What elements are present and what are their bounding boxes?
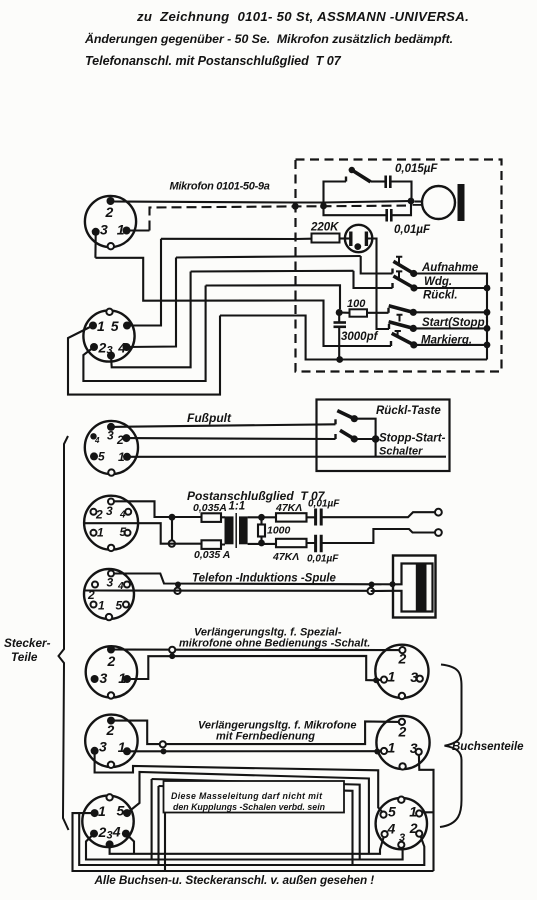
svg-text:Stecker-: Stecker- (4, 636, 51, 650)
svg-text:1: 1 (388, 740, 396, 756)
svg-text:2: 2 (398, 651, 407, 667)
svg-text:Telefonanschl. mit Postanschlu: Telefonanschl. mit Postanschlußglied T 0… (85, 54, 342, 68)
svg-text:Telefon -Induktions -Spule: Telefon -Induktions -Spule (192, 573, 337, 585)
svg-text:3: 3 (106, 504, 113, 518)
svg-text:1:1: 1:1 (229, 501, 246, 513)
svg-text:1: 1 (97, 318, 105, 334)
svg-text:1: 1 (118, 450, 125, 464)
svg-text:Mikrofon 0101-50-9a: Mikrofon 0101-50-9a (170, 181, 270, 193)
svg-text:Rückl.: Rückl. (423, 290, 458, 302)
svg-text:0,01µF: 0,01µF (394, 224, 431, 236)
svg-text:1: 1 (117, 222, 125, 238)
svg-text:2: 2 (98, 340, 107, 356)
svg-text:4: 4 (387, 821, 396, 837)
svg-text:3: 3 (410, 740, 418, 756)
svg-text:4: 4 (117, 581, 124, 592)
svg-text:mikrofone ohne Bedienungs -Sch: mikrofone ohne Bedienungs -Schalt. (179, 638, 370, 650)
svg-text:220K: 220K (310, 222, 339, 234)
svg-text:100: 100 (347, 298, 366, 310)
svg-text:3: 3 (410, 669, 418, 685)
svg-text:5: 5 (116, 599, 123, 613)
svg-text:2: 2 (106, 722, 115, 738)
svg-text:1: 1 (118, 739, 126, 755)
svg-text:4: 4 (112, 824, 121, 840)
svg-text:0,015µF: 0,015µF (395, 163, 438, 175)
svg-text:1: 1 (97, 526, 104, 540)
svg-text:Rückl-Taste: Rückl-Taste (376, 405, 441, 417)
svg-text:Fußpult: Fußpult (187, 411, 232, 425)
svg-text:2: 2 (409, 820, 418, 836)
svg-text:2: 2 (116, 433, 124, 447)
svg-text:3: 3 (99, 739, 107, 755)
svg-text:5: 5 (98, 450, 105, 464)
svg-text:1: 1 (118, 670, 126, 686)
svg-text:3: 3 (100, 670, 108, 686)
svg-text:2: 2 (107, 653, 116, 669)
svg-text:0,01µF: 0,01µF (308, 499, 340, 510)
svg-text:2: 2 (98, 824, 107, 840)
svg-text:Buchsenteile: Buchsenteile (452, 741, 524, 753)
svg-text:4: 4 (94, 436, 100, 445)
svg-text:47KΛ: 47KΛ (272, 551, 299, 563)
svg-text:2: 2 (105, 204, 114, 220)
svg-text:0,035 A: 0,035 A (194, 549, 230, 561)
svg-text:0,035A: 0,035A (193, 502, 227, 514)
svg-text:1: 1 (409, 804, 417, 820)
svg-text:Teile: Teile (11, 650, 38, 664)
svg-text:mit Fernbedienung: mit Fernbedienung (216, 731, 315, 743)
svg-text:3: 3 (107, 345, 113, 357)
svg-text:5: 5 (388, 804, 396, 820)
svg-text:47KΛ: 47KΛ (275, 502, 302, 514)
svg-text:Diese Masseleitung darf nicht: Diese Masseleitung darf nicht mit (171, 791, 323, 801)
svg-text:2: 2 (398, 724, 407, 740)
svg-text:3: 3 (107, 576, 114, 590)
svg-text:3: 3 (100, 222, 108, 238)
svg-text:1000: 1000 (267, 525, 291, 537)
svg-text:0,01µF: 0,01µF (307, 554, 339, 565)
svg-text:Schalter: Schalter (379, 446, 423, 458)
svg-text:4: 4 (117, 340, 126, 356)
svg-text:Start(Stopp): Start(Stopp) (422, 317, 489, 329)
svg-text:Postanschlußglied T 07: Postanschlußglied T 07 (187, 489, 326, 503)
svg-text:3000pf: 3000pf (341, 331, 379, 343)
svg-text:3: 3 (399, 832, 405, 844)
svg-text:Markierg.: Markierg. (421, 335, 472, 347)
svg-text:den Kupplungs -Schalen verbd.: den Kupplungs -Schalen verbd. sein (173, 802, 325, 812)
svg-text:2: 2 (87, 588, 95, 602)
svg-text:2: 2 (95, 508, 103, 522)
svg-text:Aufnahme: Aufnahme (421, 262, 479, 274)
svg-text:zu Zeichnung 0101- 50 St, AS: zu Zeichnung 0101- 50 St, ASSMANN -UNIVE… (136, 9, 469, 24)
svg-text:1: 1 (388, 669, 396, 685)
svg-text:Alle Buchsen-u. Steckeranschl.: Alle Buchsen-u. Steckeranschl. v. außen … (94, 873, 375, 887)
svg-text:1: 1 (98, 803, 106, 819)
svg-text:1: 1 (98, 599, 105, 613)
svg-text:4: 4 (119, 510, 126, 521)
svg-text:Änderungen gegenüber - 50 Se.: Änderungen gegenüber - 50 Se. Mikrofon z… (84, 31, 453, 46)
svg-text:Wdg.: Wdg. (424, 276, 452, 288)
svg-text:5: 5 (111, 318, 119, 334)
svg-text:5: 5 (117, 803, 125, 819)
svg-text:3: 3 (107, 429, 114, 443)
svg-text:Stopp-Start-: Stopp-Start- (379, 433, 446, 445)
svg-text:5: 5 (120, 525, 127, 539)
svg-text:3: 3 (107, 830, 113, 842)
